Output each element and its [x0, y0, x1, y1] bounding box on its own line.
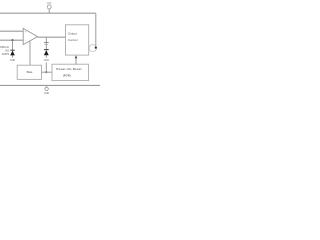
capacitor / reference stack C1: [44, 38, 49, 50]
wire op-amp top input: [0, 30, 23, 32]
pin GND: [44, 85, 50, 95]
label FEEDBACK AND CLAMPS (cropped): [0, 45, 9, 56]
wire op-amp output: [38, 36, 66, 38]
wire op-amp tail to Bias: [29, 42, 31, 66]
svg-text:Bias: Bias: [27, 70, 33, 74]
svg-text:GND: GND: [44, 92, 50, 95]
node junction on bottom input: [11, 39, 13, 41]
svg-text:(POR): (POR): [63, 73, 71, 77]
block Output Control: [66, 25, 89, 55]
diode D1 clamp: [10, 40, 16, 62]
block Power-On-Reset (POR): [52, 64, 89, 80]
wire right vertical from VDD rail: [95, 13, 97, 47]
node output junction dot: [95, 47, 97, 49]
block Bias: [17, 65, 41, 79]
svg-text:DBACK: DBACK: [0, 45, 9, 49]
diode D2 reference: [44, 50, 50, 62]
svg-text:Output: Output: [68, 31, 77, 35]
svg-text:AMPS: AMPS: [2, 52, 10, 56]
wire reference to bias net: [45, 62, 47, 72]
wire POR to Output Control with up arrow: [75, 55, 77, 64]
svg-text:Control: Control: [68, 38, 78, 42]
svg-text:GND: GND: [44, 59, 50, 62]
svg-text:ND: ND: [5, 49, 9, 53]
svg-text:GND: GND: [10, 59, 16, 62]
wire op-amp bottom input: [0, 39, 23, 41]
output pad circle: [89, 45, 96, 52]
svg-text:Power-On-Reset: Power-On-Reset: [56, 67, 81, 71]
pin VDD: [47, 3, 52, 13]
wire bottom GND rail: [0, 84, 100, 86]
op-amp U1: [23, 28, 37, 44]
wire Bias to POR: [42, 71, 53, 73]
node junction on bias net: [45, 71, 47, 73]
wire top VDD rail: [0, 12, 96, 14]
